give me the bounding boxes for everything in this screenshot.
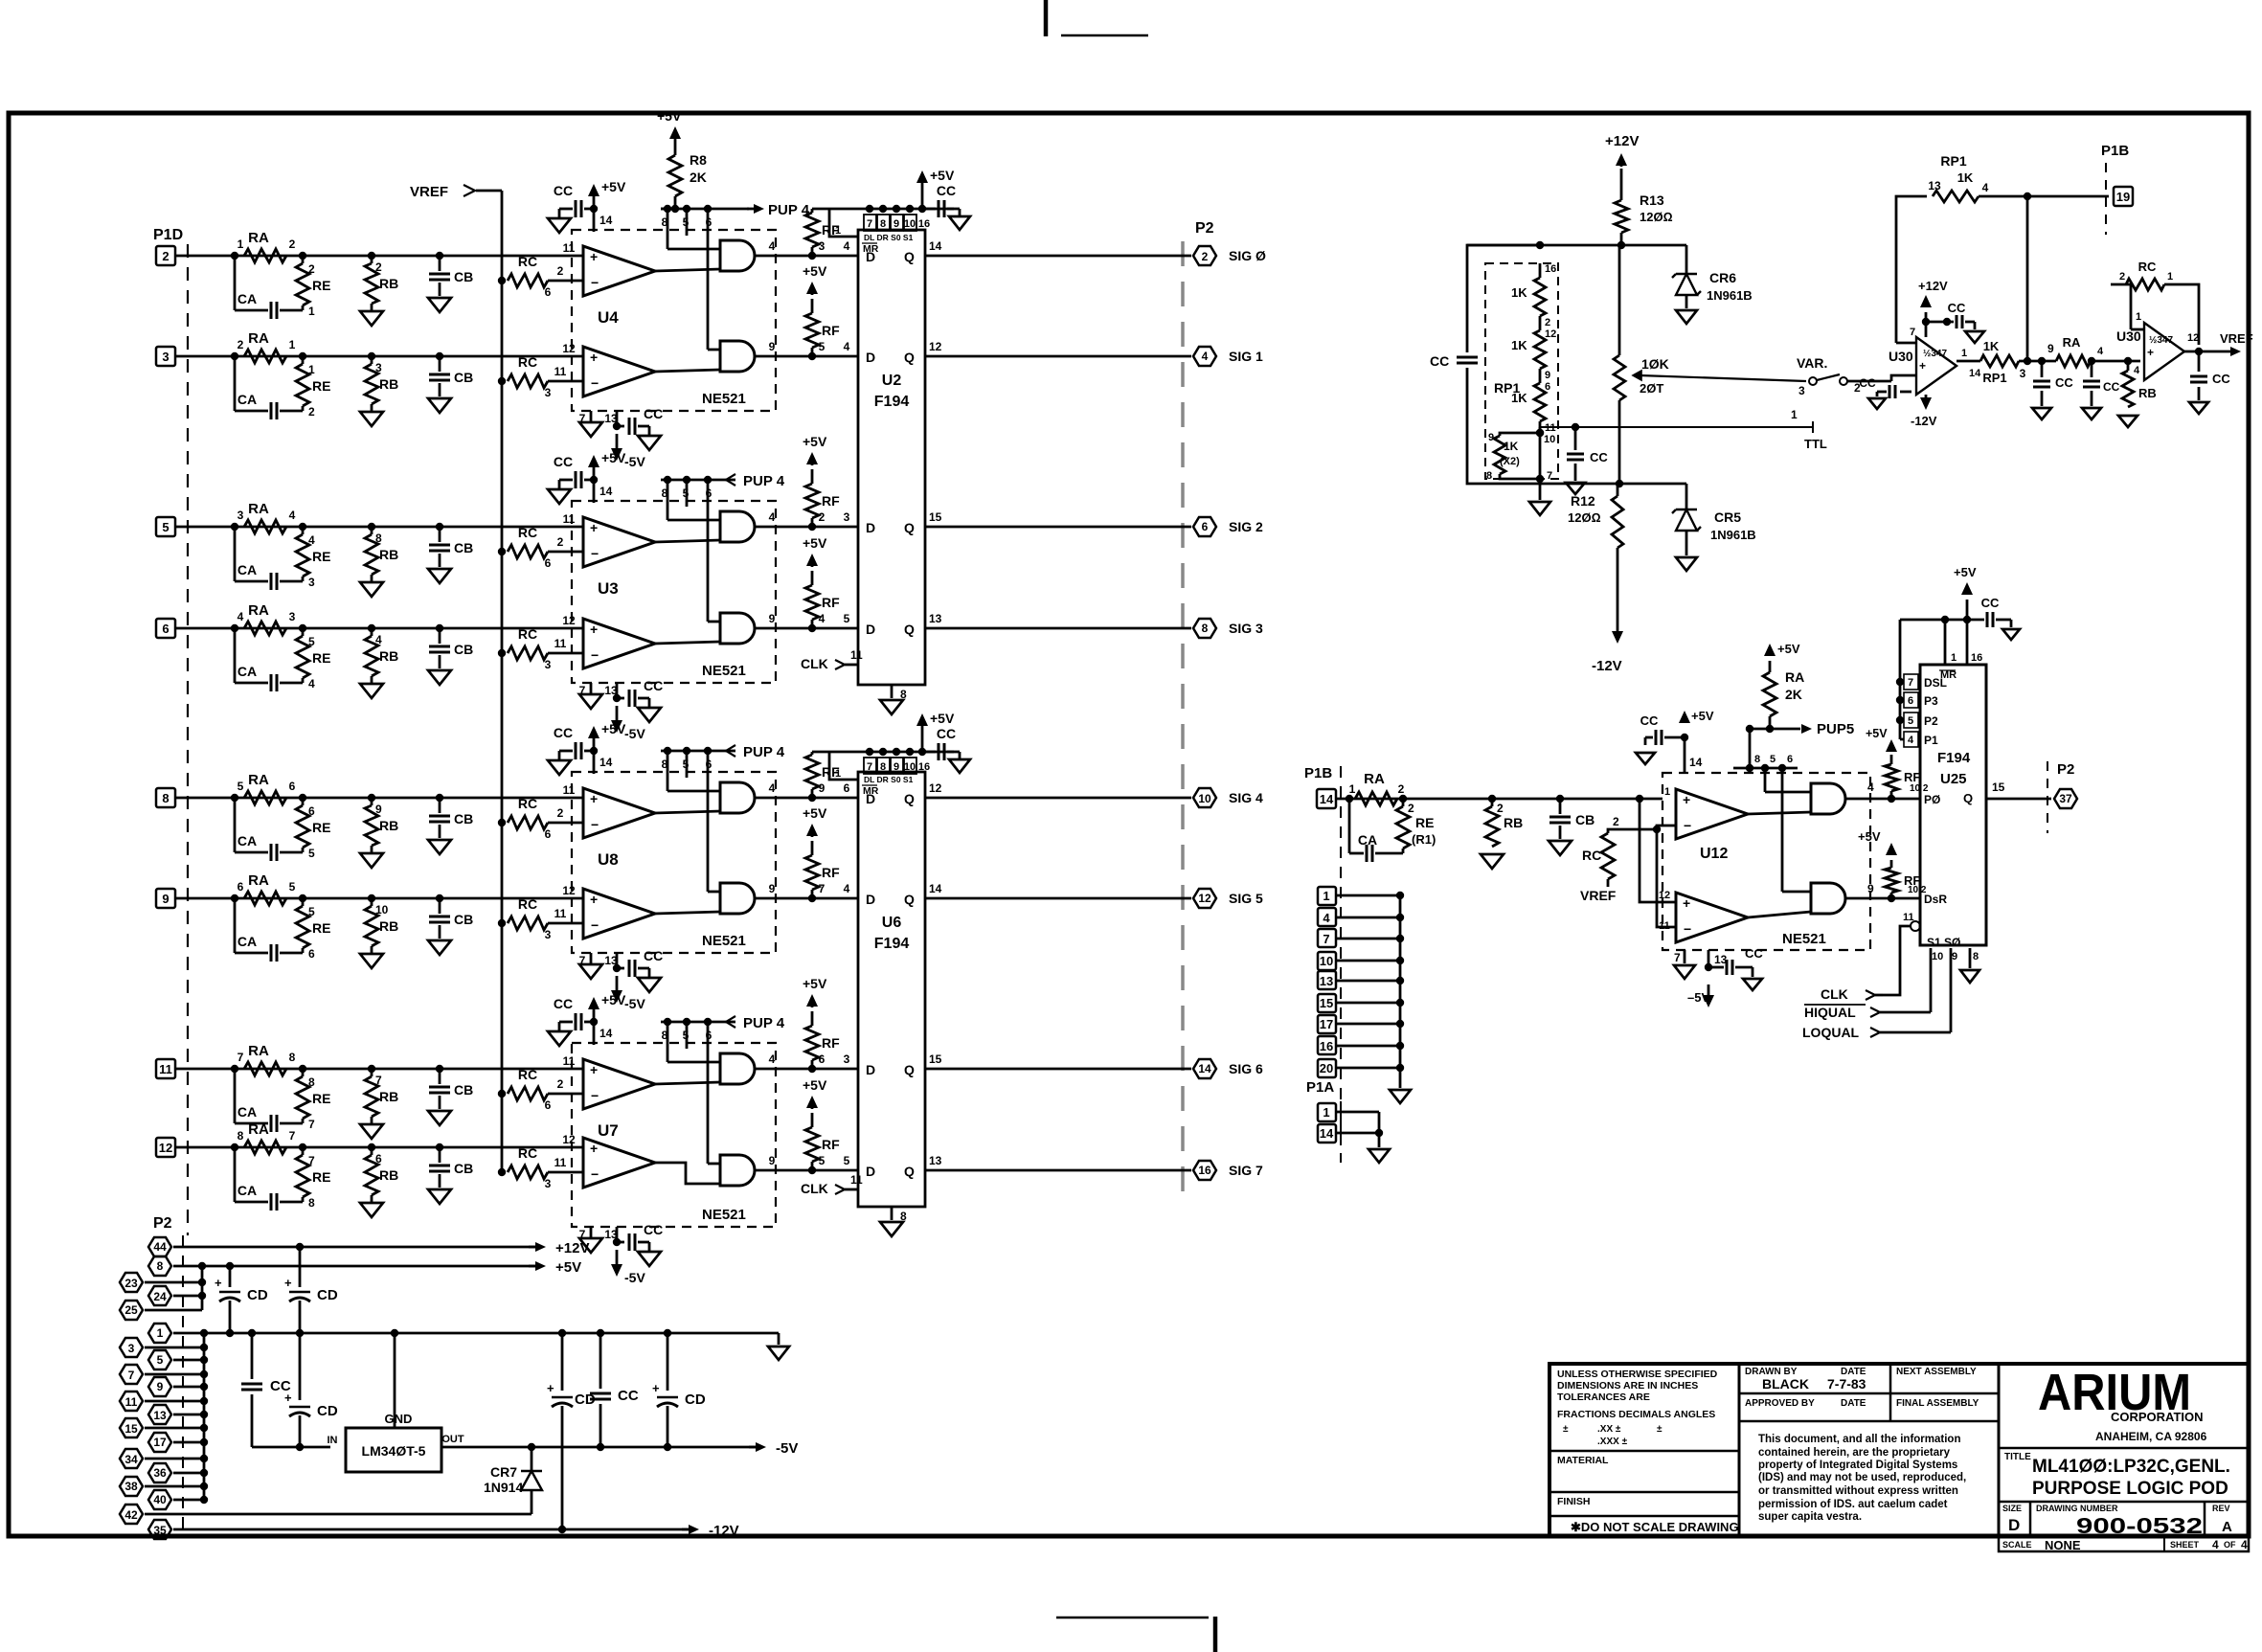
svg-text:+: + bbox=[590, 520, 598, 535]
svg-text:7: 7 bbox=[375, 1074, 382, 1087]
op-amp U30 output follower (right) bbox=[2144, 323, 2184, 380]
node channel 7 RB junction bbox=[368, 1065, 375, 1073]
svg-text:D: D bbox=[866, 350, 875, 365]
svg-text:RA: RA bbox=[248, 872, 269, 889]
U25 input P2 pin 5 bbox=[1896, 716, 1904, 724]
svg-text:CC: CC bbox=[937, 183, 956, 198]
svg-text:1: 1 bbox=[308, 305, 315, 318]
svg-text:+5V: +5V bbox=[1858, 829, 1881, 844]
svg-text:+5V: +5V bbox=[930, 168, 955, 183]
ground below RB (reference) bbox=[2118, 416, 2138, 427]
P2 pin 7 hexagon (GND) bbox=[120, 1365, 143, 1384]
svg-text:+: + bbox=[547, 1381, 554, 1395]
wire comparator U4A output to gate bbox=[655, 269, 720, 271]
wire switch to U30 buffer input bbox=[1847, 380, 1891, 383]
wire LOQUAL to pin 9 bbox=[1950, 948, 1953, 1032]
svg-text:CD: CD bbox=[317, 1287, 338, 1303]
P1D pin 2 (channel 1 input) bbox=[156, 246, 175, 265]
PUP 4 net stub (U7) bbox=[725, 1021, 735, 1024]
node channel 3 RA left junction bbox=[231, 523, 238, 531]
P2 pin 16 hexagon (SIG 7) bbox=[1193, 1161, 1216, 1180]
P1A boundary dashed tick bbox=[1340, 1101, 1342, 1164]
svg-text:TITLE: TITLE bbox=[2004, 1452, 2031, 1462]
wire strobe pin 8 vertical (U3) bbox=[667, 480, 669, 520]
svg-text:CA: CA bbox=[238, 664, 257, 679]
svg-text:14: 14 bbox=[599, 214, 613, 227]
svg-text:Q: Q bbox=[904, 791, 915, 806]
ground for CC bypass (U7 top) bbox=[548, 1031, 571, 1046]
svg-text:−: − bbox=[591, 1166, 599, 1182]
svg-text:PUP 4: PUP 4 bbox=[743, 744, 785, 760]
wire RP1 1K to P1B pin 19 bbox=[1979, 195, 2109, 198]
svg-text:7: 7 bbox=[308, 1118, 315, 1131]
svg-text:5: 5 bbox=[308, 635, 315, 648]
capacitor CC bypass (U7 V+) bbox=[575, 1013, 577, 1030]
comparator block U4 NE521 dashed outline bbox=[572, 230, 776, 411]
wire +12V feed bbox=[173, 1246, 536, 1249]
wire comparator U7B output to gate bbox=[655, 1163, 720, 1184]
capacitor CB (qualifier) bbox=[1559, 799, 1562, 814]
svg-text:8: 8 bbox=[157, 1259, 164, 1273]
svg-text:11: 11 bbox=[850, 1173, 863, 1187]
wire comparator U3B output to gate bbox=[655, 642, 720, 644]
wire P2 pin 40 to ground bus bbox=[173, 1499, 204, 1502]
svg-text:CA: CA bbox=[238, 1183, 257, 1198]
AND gate U3A (channel 3) bbox=[720, 511, 755, 542]
-5V supply arrow (U8 pin 13) bbox=[616, 976, 619, 997]
svg-text:−: − bbox=[591, 647, 599, 663]
svg-text:-12V: -12V bbox=[1911, 414, 1937, 428]
capacitor CC (U25) bbox=[1986, 612, 1989, 627]
svg-text:36: 36 bbox=[153, 1466, 167, 1480]
svg-text:NE521: NE521 bbox=[1782, 931, 1826, 947]
svg-text:CA: CA bbox=[238, 562, 257, 577]
svg-text:7: 7 bbox=[128, 1369, 135, 1382]
svg-text:RC: RC bbox=[2138, 260, 2157, 274]
svg-text:DIMENSIONS ARE IN INCHES: DIMENSIONS ARE IN INCHES bbox=[1557, 1380, 1698, 1392]
svg-text:−: − bbox=[591, 1088, 599, 1103]
P1D pin 8 (channel 5 input) bbox=[156, 788, 175, 807]
svg-text:4: 4 bbox=[769, 510, 776, 524]
wire U30 follower output VREF bbox=[2184, 351, 2231, 353]
wire feedback junction down to output node bbox=[2026, 196, 2029, 361]
svg-text:+5V: +5V bbox=[803, 1077, 827, 1093]
VAR switch lever and label bbox=[1817, 374, 1840, 380]
svg-text:12: 12 bbox=[562, 342, 576, 355]
svg-text:3: 3 bbox=[289, 610, 296, 623]
svg-text:1: 1 bbox=[308, 363, 315, 376]
svg-text:CB: CB bbox=[454, 912, 473, 927]
resistor RE (channel 7) bbox=[302, 1069, 305, 1076]
svg-text:DL DR S0 S1: DL DR S0 S1 bbox=[864, 775, 914, 784]
wire U3 pin 14 into box bbox=[593, 480, 596, 503]
wire strobe pin 5 stub (U3) bbox=[686, 480, 689, 507]
node channel 4 RA left junction bbox=[231, 624, 238, 632]
svg-text:11: 11 bbox=[554, 1156, 567, 1169]
svg-text:14: 14 bbox=[1320, 792, 1334, 806]
capacitor CB (channel 3) bbox=[439, 527, 441, 542]
wire comparator U7A output to gate bbox=[655, 1082, 720, 1084]
node channel 5 RA right junction bbox=[299, 794, 306, 802]
svg-text:D: D bbox=[866, 791, 875, 806]
svg-text:OUT: OUT bbox=[441, 1434, 464, 1445]
resistor RB (channel 1) bbox=[371, 256, 373, 263]
VREF output arrow and label bbox=[2230, 347, 2241, 356]
svg-text:12ØΩ: 12ØΩ bbox=[1568, 510, 1601, 525]
svg-text:CORPORATION: CORPORATION bbox=[2111, 1410, 2204, 1424]
svg-text:+: + bbox=[284, 1391, 292, 1405]
node PUP5 junction bbox=[1766, 725, 1774, 733]
ground for CC (U30 +12V) bbox=[1974, 322, 1977, 329]
node PUP4 rail dots (U4) bbox=[664, 205, 671, 213]
svg-text:RC: RC bbox=[518, 354, 537, 370]
svg-text:+5V: +5V bbox=[803, 805, 827, 821]
P2 pin 23 hexagon bbox=[120, 1273, 143, 1292]
svg-text:SIG 4: SIG 4 bbox=[1229, 790, 1263, 805]
svg-text:FINAL ASSEMBLY: FINAL ASSEMBLY bbox=[1896, 1398, 1979, 1409]
svg-text:NE521: NE521 bbox=[702, 663, 746, 679]
svg-text:15: 15 bbox=[929, 510, 942, 524]
svg-text:7: 7 bbox=[1547, 470, 1552, 482]
capacitor CC bypass (U7 V-) bbox=[617, 1241, 624, 1244]
svg-text:U12: U12 bbox=[1700, 846, 1728, 862]
capacitor CA (channel 8) bbox=[234, 1147, 237, 1202]
svg-text:SIG 2: SIG 2 bbox=[1229, 519, 1263, 534]
svg-text:11: 11 bbox=[554, 365, 567, 378]
svg-text:DATE: DATE bbox=[1841, 1398, 1866, 1409]
wire U2 Q output to P2 (SIG 3) bbox=[925, 627, 1191, 630]
wire AND output to U6 D input (channel 6) bbox=[755, 897, 858, 900]
wire U3 pin 13 bbox=[616, 683, 619, 698]
R16 wiper arrow bbox=[1633, 371, 1641, 380]
svg-text:-12V: -12V bbox=[709, 1523, 739, 1539]
svg-text:+: + bbox=[284, 1276, 292, 1290]
svg-text:CLK: CLK bbox=[801, 656, 828, 671]
svg-text:5: 5 bbox=[1908, 715, 1913, 727]
wire regulator output -5V line bbox=[441, 1446, 757, 1449]
capacitor CA (channel 2) bbox=[234, 356, 237, 411]
svg-text:8: 8 bbox=[1486, 470, 1492, 482]
svg-text:RF: RF bbox=[822, 1035, 840, 1051]
wire HIQUAL to pin 10 bbox=[1930, 948, 1933, 1012]
svg-text:3: 3 bbox=[1798, 384, 1805, 397]
capacitor CB (channel 7) bbox=[439, 1069, 441, 1084]
svg-text:4: 4 bbox=[238, 610, 244, 623]
svg-text:3: 3 bbox=[545, 928, 552, 941]
svg-text:CR6: CR6 bbox=[1709, 270, 1736, 285]
svg-text:11: 11 bbox=[563, 783, 576, 797]
svg-text:5: 5 bbox=[819, 1154, 826, 1167]
PUP 4 net stub (U3) bbox=[725, 479, 735, 482]
svg-text:VREF: VREF bbox=[1580, 888, 1617, 903]
top registration tick bbox=[1044, 0, 1049, 36]
P2 pin 2 hexagon (SIG 0) bbox=[1193, 246, 1216, 265]
op-amp U30 unity buffer (left) bbox=[1916, 337, 1957, 395]
svg-text:F194: F194 bbox=[874, 394, 910, 410]
svg-text:4: 4 bbox=[308, 677, 315, 690]
U25 pin 16 bbox=[1966, 620, 1969, 665]
svg-text:5: 5 bbox=[844, 1154, 850, 1167]
resistor RB (qualifier) bbox=[1491, 799, 1494, 806]
title block column dividers bbox=[1738, 1364, 1741, 1536]
node channel 8 RA left junction bbox=[231, 1143, 238, 1151]
svg-text:+5V: +5V bbox=[657, 108, 682, 124]
svg-text:CA: CA bbox=[1358, 832, 1377, 848]
svg-text:RA: RA bbox=[248, 330, 269, 347]
svg-text:2: 2 bbox=[1497, 802, 1504, 815]
wire U12 strobe to gate B bbox=[1781, 768, 1784, 892]
wire P2 pin 3 to ground bus bbox=[145, 1346, 204, 1349]
-12V supply arrow (U30) bbox=[1925, 395, 1928, 402]
wire to RA node bbox=[2019, 360, 2056, 363]
svg-text:+12V: +12V bbox=[1605, 133, 1639, 149]
voltage regulator LM340T-5 bbox=[346, 1428, 441, 1472]
ground for CC (U4 V-) bbox=[648, 426, 651, 436]
resistor RC (channel 1) bbox=[508, 274, 548, 287]
svg-text:NE521: NE521 bbox=[702, 933, 746, 949]
svg-text:+: + bbox=[2147, 346, 2154, 359]
wire U25 Q output to P2 bbox=[1986, 798, 2051, 801]
svg-text:15: 15 bbox=[1992, 781, 2005, 794]
svg-text:RE: RE bbox=[312, 820, 330, 835]
capacitor CD (-5V filter right) bbox=[667, 1333, 669, 1391]
ground U7 pin 7 bbox=[590, 1227, 593, 1238]
wire channel 2 input to comparator bbox=[175, 355, 583, 358]
svg-text:37: 37 bbox=[2059, 792, 2072, 805]
svg-text:CC: CC bbox=[554, 725, 573, 740]
wire comparator U8A output to gate bbox=[655, 811, 720, 813]
svg-text:1: 1 bbox=[1349, 782, 1356, 796]
node channel 4 RC tap on VREF bus bbox=[498, 649, 506, 657]
comparator U4A (channel 1) bbox=[583, 246, 655, 296]
ground bus drop and ground symbol bbox=[778, 1333, 780, 1345]
ground for CC (U8 V-) bbox=[648, 968, 651, 978]
P2 pin 12 hexagon (SIG 5) bbox=[1193, 889, 1216, 908]
svg-text:APPROVED BY: APPROVED BY bbox=[1745, 1398, 1815, 1409]
svg-text:2: 2 bbox=[238, 338, 244, 351]
svg-text:6: 6 bbox=[545, 285, 552, 299]
+5V arrow and label bbox=[529, 1265, 542, 1268]
resistor RE (channel 4) bbox=[302, 628, 305, 636]
resistor RP1 1K (pins 14-3) bbox=[1980, 355, 2019, 367]
svg-text:½347: ½347 bbox=[1923, 349, 1947, 359]
svg-text:D: D bbox=[866, 622, 875, 637]
svg-text:9: 9 bbox=[375, 803, 382, 816]
wire channel 1 input to comparator bbox=[175, 255, 583, 258]
wire PUP4 strobe rail (U3) bbox=[661, 479, 725, 482]
wire P2 pin 38 to ground bus bbox=[145, 1485, 204, 1488]
PUP 4 net stub (U8) bbox=[725, 750, 735, 753]
node PUP4 rail dots (U8) bbox=[664, 747, 671, 755]
svg-text:6: 6 bbox=[289, 780, 296, 793]
svg-text:8: 8 bbox=[375, 532, 382, 545]
U25 pin 8 ground bbox=[1969, 948, 1972, 968]
svg-text:P1: P1 bbox=[1924, 734, 1938, 747]
svg-text:CC: CC bbox=[1590, 450, 1608, 464]
svg-text:CC: CC bbox=[618, 1388, 639, 1404]
svg-text:RA: RA bbox=[248, 772, 269, 788]
U2 top pin boxes 7 8 9 10 16 bbox=[864, 215, 876, 231]
node channel 5 CB junction bbox=[436, 794, 443, 802]
capacitor CC (VREF output filter) bbox=[2198, 351, 2201, 372]
wire U12 strobe to gate A bbox=[1764, 768, 1767, 792]
wire strobe pin 8 vertical (U4) bbox=[667, 209, 669, 249]
svg-text:8: 8 bbox=[308, 1075, 315, 1089]
capacitor CD (input filter) bbox=[299, 1333, 302, 1400]
svg-text:3: 3 bbox=[128, 1342, 135, 1355]
wire P1B pin 7 to tie bus bbox=[1336, 938, 1400, 940]
resistor RB (channel 6) bbox=[371, 898, 373, 906]
svg-text:9: 9 bbox=[893, 218, 899, 230]
wire comparator U8B output to gate bbox=[655, 912, 720, 914]
U12 strobe rail bbox=[1733, 767, 1798, 770]
svg-text:24: 24 bbox=[153, 1290, 167, 1303]
P2 pin 13 hexagon (GND) bbox=[148, 1405, 171, 1424]
svg-text:RF: RF bbox=[822, 493, 840, 509]
svg-text:½347: ½347 bbox=[2149, 335, 2173, 346]
svg-text:5: 5 bbox=[683, 1029, 690, 1042]
svg-text:RP1: RP1 bbox=[1940, 153, 1966, 169]
wire strobe pin 8 vertical (U7) bbox=[667, 1022, 669, 1062]
svg-text:2: 2 bbox=[289, 238, 296, 251]
comparator block U8 NE521 dashed outline bbox=[572, 772, 776, 953]
wire R12 row bbox=[1540, 483, 1686, 486]
P1B ground tie bus bbox=[1399, 895, 1402, 1088]
resistor RA (channel 5) bbox=[244, 791, 286, 804]
svg-text:CC: CC bbox=[554, 454, 573, 469]
U25 input P1 pin 4 bbox=[1900, 738, 1920, 741]
node U4 pin 13 junction bbox=[613, 422, 621, 430]
svg-text:8: 8 bbox=[662, 1029, 668, 1042]
ground for CC (node 9) bbox=[2032, 408, 2051, 419]
svg-text:F194: F194 bbox=[1937, 750, 1971, 766]
svg-text:2: 2 bbox=[557, 535, 564, 549]
svg-text:+5V: +5V bbox=[1954, 565, 1977, 579]
svg-text:14: 14 bbox=[1689, 756, 1703, 769]
wire RC to output bbox=[2164, 284, 2199, 345]
ground below CB (channel 1) bbox=[428, 298, 451, 312]
svg-text:1: 1 bbox=[1961, 348, 1967, 359]
svg-text:3: 3 bbox=[844, 1052, 850, 1066]
svg-text:1: 1 bbox=[157, 1326, 164, 1340]
svg-text:2: 2 bbox=[308, 262, 315, 276]
node channel 7 CB junction bbox=[436, 1065, 443, 1073]
capacitor CA (channel 1) bbox=[234, 256, 237, 310]
svg-text:10: 10 bbox=[904, 761, 916, 773]
P2 pin 38 hexagon (GND) bbox=[120, 1477, 143, 1496]
wire -12V feed bbox=[173, 1528, 690, 1531]
svg-text:GND: GND bbox=[385, 1412, 413, 1426]
svg-text:RF: RF bbox=[1904, 873, 1920, 888]
wire strobe pin 5 stub (U4) bbox=[686, 209, 689, 236]
resistor RC (channel 4) bbox=[508, 646, 548, 660]
svg-text:CC: CC bbox=[1640, 713, 1659, 728]
finish cell bbox=[1549, 1491, 1739, 1494]
svg-text:RB: RB bbox=[379, 547, 398, 562]
P2 pin 11 hexagon (GND) bbox=[120, 1392, 143, 1411]
svg-text:−: − bbox=[591, 375, 599, 391]
svg-text:14: 14 bbox=[1198, 1062, 1211, 1075]
svg-text:38: 38 bbox=[124, 1480, 138, 1493]
node U3 +5V pin 14 bbox=[590, 476, 598, 484]
diode CR7 1N914 bbox=[531, 1447, 533, 1471]
svg-text:40: 40 bbox=[153, 1493, 167, 1506]
wire strobe pin 6 vertical (U3) bbox=[707, 480, 710, 622]
wire strobe pin 5 stub (U7) bbox=[686, 1022, 689, 1049]
wire R16 bottom bbox=[1618, 400, 1621, 484]
svg-text:P2: P2 bbox=[153, 1215, 172, 1232]
svg-text:7: 7 bbox=[1910, 327, 1915, 338]
svg-text:1N961B: 1N961B bbox=[1710, 528, 1756, 542]
svg-text:4: 4 bbox=[375, 633, 382, 646]
svg-text:9: 9 bbox=[1867, 882, 1874, 895]
resistor RE (channel 2) bbox=[302, 356, 305, 364]
svg-text:CB: CB bbox=[454, 642, 473, 657]
svg-text:8: 8 bbox=[662, 758, 668, 771]
svg-text:2ØT: 2ØT bbox=[1640, 381, 1663, 396]
size / drawing number row bbox=[1999, 1501, 2249, 1504]
U25 input DSL pin 7 bbox=[1896, 678, 1904, 686]
svg-text:CC: CC bbox=[644, 948, 663, 963]
svg-text:9: 9 bbox=[1545, 370, 1550, 381]
svg-text:(X2): (X2) bbox=[1500, 456, 1520, 467]
wire regulator GND pin bbox=[394, 1333, 396, 1428]
resistor RF pull-up (channel 5) bbox=[811, 752, 814, 755]
svg-text:MATERIAL: MATERIAL bbox=[1557, 1455, 1609, 1466]
svg-text:+: + bbox=[590, 350, 598, 365]
svg-text:RB: RB bbox=[1504, 815, 1523, 830]
svg-text:9: 9 bbox=[2047, 342, 2054, 355]
svg-text:RE: RE bbox=[1415, 815, 1434, 830]
svg-text:20: 20 bbox=[1320, 1061, 1333, 1075]
wire AND output to U2 D input (channel 2) bbox=[755, 355, 858, 358]
svg-text:13: 13 bbox=[1320, 974, 1333, 988]
svg-text:FINISH: FINISH bbox=[1557, 1496, 1590, 1507]
U25 input P3 pin 6 bbox=[1896, 696, 1904, 704]
P2 pin 14 hexagon (SIG 6) bbox=[1193, 1059, 1216, 1078]
svg-text:2: 2 bbox=[1398, 782, 1405, 796]
svg-text:6: 6 bbox=[706, 1029, 713, 1042]
wire channel 7 input to comparator bbox=[175, 1068, 583, 1071]
svg-text:5: 5 bbox=[683, 758, 690, 771]
svg-text:+5V: +5V bbox=[803, 434, 827, 449]
svg-text:14: 14 bbox=[929, 239, 942, 253]
svg-text:−: − bbox=[591, 275, 599, 290]
svg-text:BLACK: BLACK bbox=[1762, 1376, 1809, 1392]
svg-text:6: 6 bbox=[819, 1052, 826, 1066]
capacitor CB (channel 8) bbox=[439, 1147, 441, 1163]
svg-text:D: D bbox=[866, 249, 875, 264]
svg-text:25: 25 bbox=[124, 1303, 138, 1317]
svg-text:DSL: DSL bbox=[1924, 676, 1947, 690]
svg-text:7: 7 bbox=[579, 684, 586, 697]
svg-text:U7: U7 bbox=[598, 1121, 619, 1140]
svg-text:6: 6 bbox=[238, 880, 244, 894]
svg-text:RC: RC bbox=[1582, 848, 1601, 863]
wire strobe pin 5 stub (U8) bbox=[686, 751, 689, 778]
P2 pin 36 hexagon (GND) bbox=[148, 1463, 171, 1482]
svg-text:SIG 5: SIG 5 bbox=[1229, 891, 1263, 906]
svg-text:3: 3 bbox=[844, 510, 850, 524]
svg-text:U25: U25 bbox=[1940, 771, 1967, 787]
svg-text:–5V: –5V bbox=[1687, 990, 1709, 1005]
svg-text:RB: RB bbox=[379, 376, 398, 392]
svg-text:4: 4 bbox=[289, 509, 296, 522]
svg-text:5: 5 bbox=[162, 520, 169, 534]
svg-text:RE: RE bbox=[312, 650, 330, 666]
svg-text:RB: RB bbox=[2138, 386, 2157, 400]
svg-text:5: 5 bbox=[819, 340, 826, 353]
